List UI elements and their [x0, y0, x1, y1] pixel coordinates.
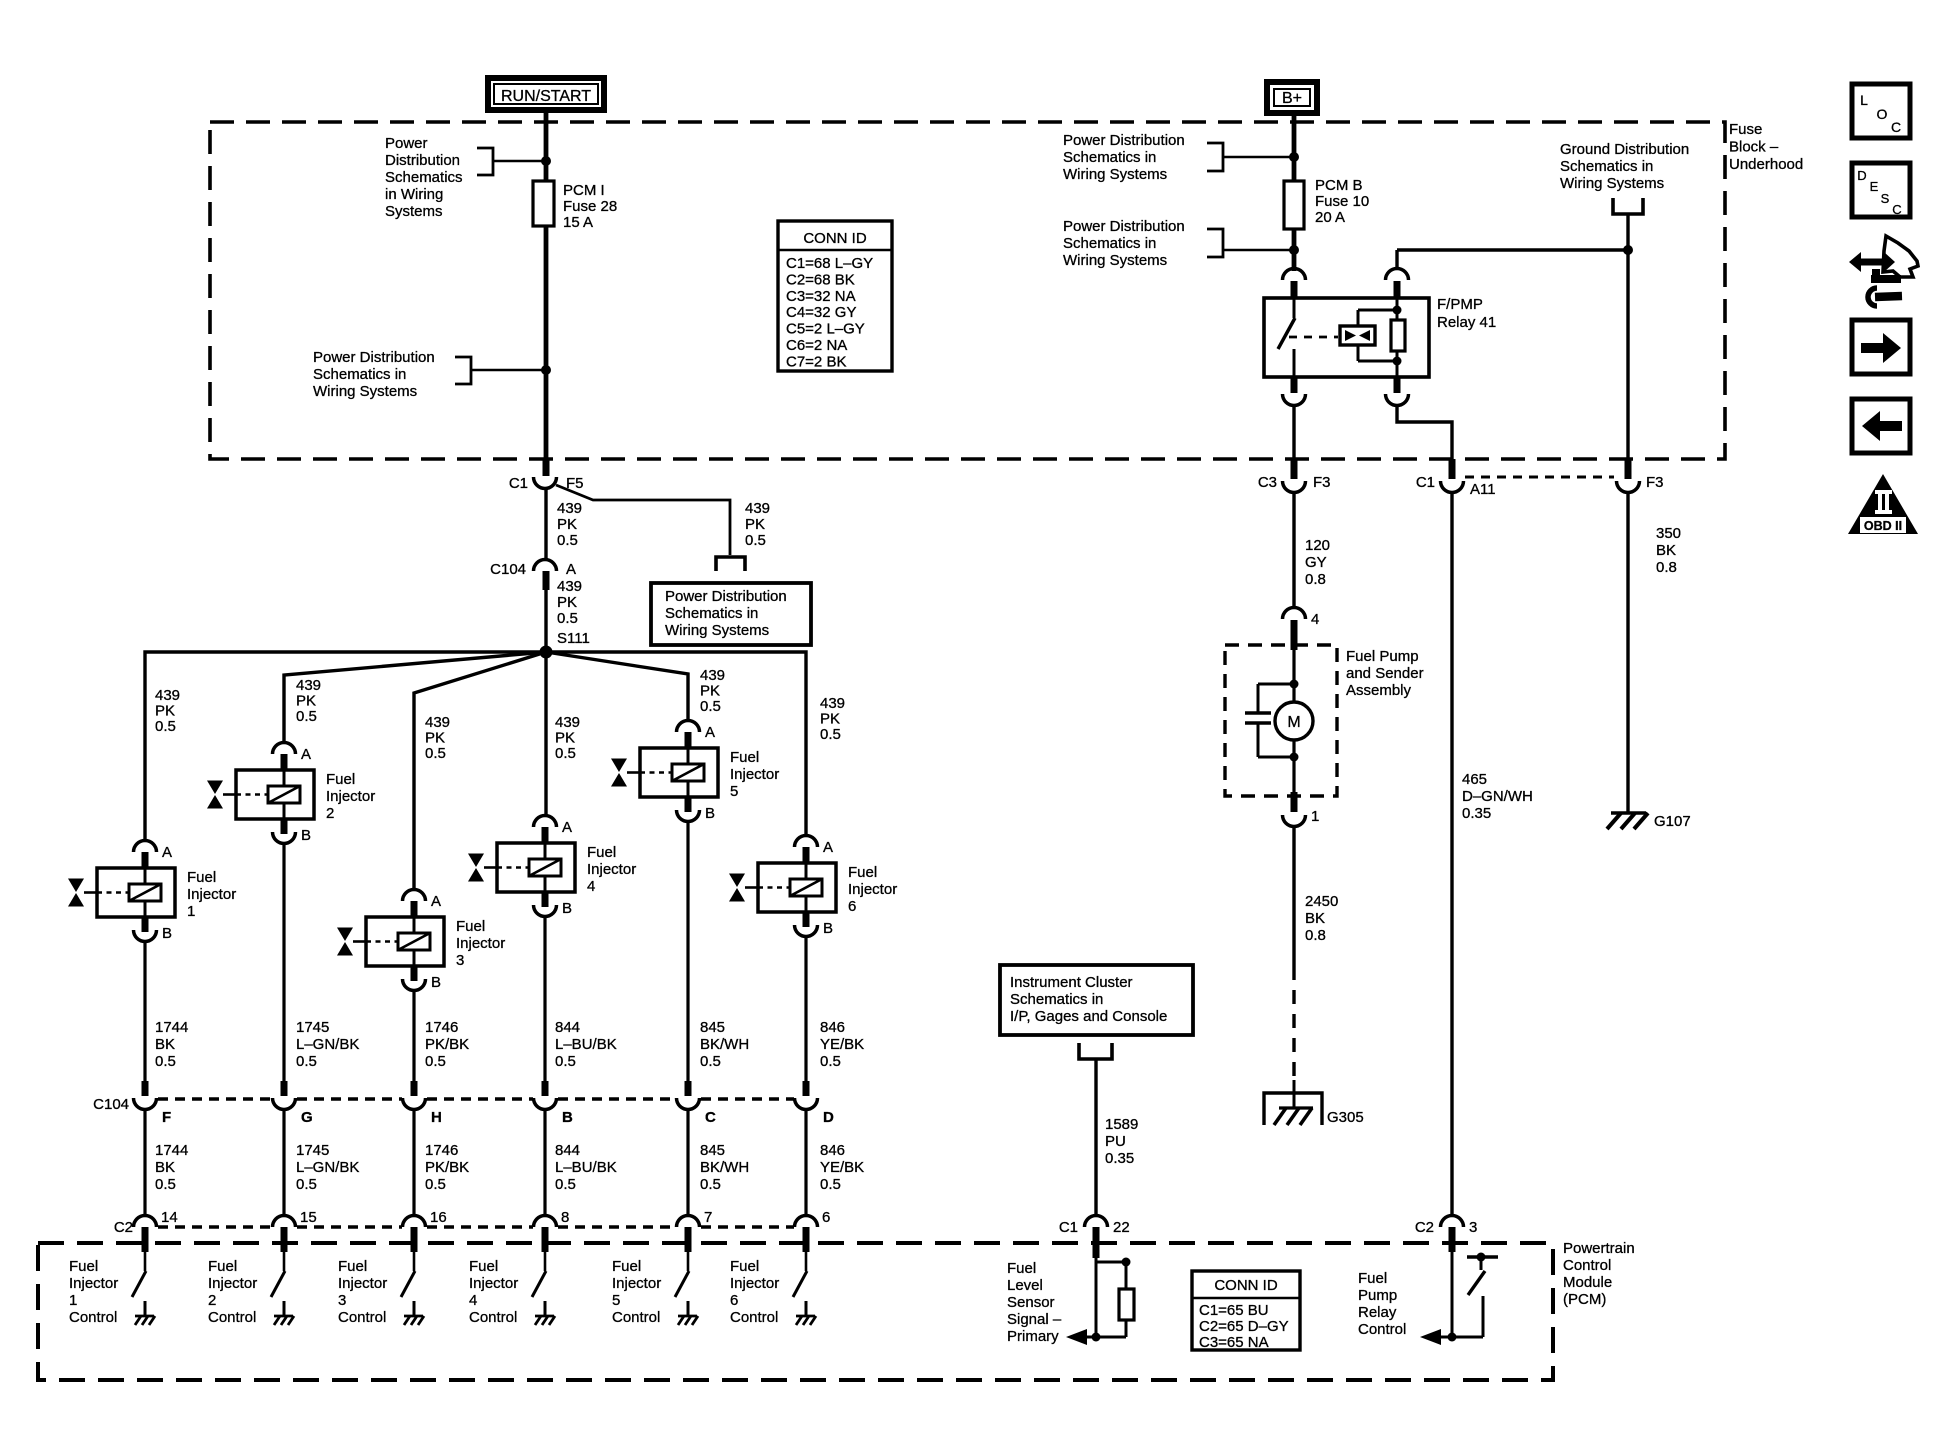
wire 845 injector 5 to C104: [686, 821, 689, 1083]
svg-text:PCM I: PCM I: [563, 182, 605, 199]
svg-text:Control: Control: [612, 1309, 660, 1326]
label 1745 L–GN/BK 0.5 (upper): [296, 1019, 359, 1070]
svg-text:Module: Module: [1563, 1274, 1612, 1291]
svg-text:Fuel: Fuel: [730, 749, 759, 766]
svg-text:B: B: [162, 925, 172, 942]
svg-text:Fuel: Fuel: [612, 1258, 641, 1275]
fuel injector 3: [337, 917, 505, 969]
svg-text:1589: 1589: [1105, 1116, 1138, 1133]
svg-text:6: 6: [822, 1209, 830, 1226]
svg-text:B: B: [823, 920, 833, 937]
wire pump feed inside assembly: [1292, 648, 1295, 701]
svg-text:Fuel Pump: Fuel Pump: [1346, 648, 1419, 665]
wire 844 injector 4 to C104: [543, 916, 546, 1083]
svg-text:Fuel: Fuel: [1007, 1260, 1036, 1277]
connector C3 / F3: [1258, 459, 1331, 493]
svg-text:Injector: Injector: [612, 1275, 661, 1292]
svg-text:F/PMP: F/PMP: [1437, 296, 1483, 313]
icon diagnostic wrench: [1849, 236, 1918, 306]
reference: power distribution schematics in wiring systems (top left): [385, 135, 546, 220]
connector row C104 (dashed): [93, 1096, 794, 1113]
wire 439 PK S111 to injector 3: [414, 652, 546, 890]
splice S111: [540, 646, 553, 659]
wire 465 D-GN/WH C1 A11 to C2: [1450, 492, 1453, 1216]
svg-text:0.5: 0.5: [557, 610, 578, 627]
svg-text:Wiring Systems: Wiring Systems: [665, 622, 769, 639]
label 465 D-GN/WH 0.35: [1462, 771, 1533, 822]
svg-text:L–BU/BK: L–BU/BK: [555, 1159, 617, 1176]
svg-text:C6=2 NA: C6=2 NA: [786, 337, 847, 354]
ground symbol (injector 6 driver): [796, 1301, 816, 1325]
label 350 BK 0.8: [1656, 525, 1681, 576]
svg-text:PK: PK: [155, 703, 175, 720]
svg-text:L: L: [1860, 92, 1868, 108]
label Fuel Injector 4 Control: [469, 1258, 518, 1326]
icon DESC: [1852, 163, 1910, 217]
svg-text:Fuel: Fuel: [187, 869, 216, 886]
junction pump bottom: [1290, 753, 1299, 762]
svg-text:Schematics in: Schematics in: [1063, 149, 1156, 166]
svg-text:BK: BK: [1305, 910, 1325, 927]
svg-text:Schematics in: Schematics in: [1010, 991, 1103, 1008]
label 1746 PK/BK 0.5 (upper): [425, 1019, 469, 1070]
svg-text:1: 1: [1311, 808, 1319, 825]
svg-text:G305: G305: [1327, 1109, 1364, 1126]
fuel injector 6: [729, 863, 897, 915]
svg-text:Power Distribution: Power Distribution: [1063, 132, 1185, 149]
svg-text:1746: 1746: [425, 1142, 458, 1159]
svg-text:20 A: 20 A: [1315, 209, 1345, 226]
svg-text:0.5: 0.5: [155, 1176, 176, 1193]
svg-text:0.35: 0.35: [1462, 805, 1491, 822]
ground G107: [1607, 813, 1691, 830]
svg-text:M: M: [1287, 714, 1300, 731]
connector C104 pin B: [534, 1081, 574, 1126]
svg-text:Powertrain: Powertrain: [1563, 1240, 1635, 1257]
label 439 PK 0.5 (injector 1 feed): [155, 687, 180, 735]
connector C1 / 22: [1059, 1216, 1130, 1259]
svg-text:C3=65 NA: C3=65 NA: [1199, 1334, 1269, 1351]
connector terminal top left of relay: [1283, 269, 1306, 299]
svg-text:6: 6: [848, 898, 856, 915]
connector terminal bottom right of relay: [1386, 377, 1409, 406]
svg-text:Control: Control: [469, 1309, 517, 1326]
svg-text:0.5: 0.5: [557, 532, 578, 549]
svg-text:4: 4: [587, 878, 595, 895]
svg-text:D: D: [1857, 168, 1866, 183]
label Fuse Block Underhood: [1729, 121, 1803, 173]
PCM driver switch fuel injector 3: [401, 1252, 415, 1297]
svg-text:0.5: 0.5: [555, 1053, 576, 1070]
svg-text:C7=2 BK: C7=2 BK: [786, 353, 846, 370]
svg-text:F: F: [162, 1109, 171, 1126]
fuel injector 5: [611, 748, 779, 800]
svg-text:RUN/START: RUN/START: [501, 88, 591, 105]
svg-text:844: 844: [555, 1019, 580, 1036]
relay resistor: [1391, 298, 1405, 377]
svg-text:L–BU/BK: L–BU/BK: [555, 1036, 617, 1053]
svg-text:3: 3: [338, 1292, 346, 1309]
svg-text:Control: Control: [338, 1309, 386, 1326]
svg-text:0.5: 0.5: [425, 1053, 446, 1070]
svg-text:B: B: [562, 900, 572, 917]
fuel injector 2: [207, 770, 375, 822]
svg-text:A: A: [566, 561, 576, 578]
svg-text:0.5: 0.5: [425, 745, 446, 762]
connector pin A of fuel injector 2: [273, 743, 312, 771]
junction relay coil feed: [1623, 245, 1633, 255]
svg-text:Injector: Injector: [326, 788, 375, 805]
svg-text:Fuel: Fuel: [587, 844, 616, 861]
svg-text:Wiring Systems: Wiring Systems: [1063, 166, 1167, 183]
svg-text:439: 439: [700, 667, 725, 684]
svg-text:I/P, Gages and Console: I/P, Gages and Console: [1010, 1008, 1167, 1025]
svg-text:845: 845: [700, 1142, 725, 1159]
connector C2 pin 14: [134, 1209, 178, 1252]
svg-text:CONN ID: CONN ID: [1214, 1277, 1278, 1294]
svg-text:Power Distribution: Power Distribution: [665, 588, 787, 605]
svg-text:0.5: 0.5: [296, 708, 317, 725]
svg-text:4: 4: [1311, 611, 1319, 628]
label 846 YE/BK 0.5 (lower): [820, 1142, 864, 1193]
connector F3 (right): [1617, 459, 1664, 493]
svg-text:7: 7: [704, 1209, 712, 1226]
label 439 PK 0.5 (injector 6 feed): [820, 695, 845, 743]
svg-text:PK/BK: PK/BK: [425, 1036, 469, 1053]
reference: power distribution schematics in wiring systems (right mid): [1063, 218, 1294, 269]
svg-text:PK: PK: [296, 693, 316, 710]
svg-text:Fuel: Fuel: [326, 771, 355, 788]
connector C104 pin F: [134, 1081, 172, 1126]
connector C1 / F5: [509, 459, 584, 492]
svg-text:Injector: Injector: [187, 886, 236, 903]
connector pin B of fuel injector 6: [795, 912, 834, 937]
svg-text:846: 846: [820, 1019, 845, 1036]
svg-text:G107: G107: [1654, 813, 1691, 830]
svg-text:L–GN/BK: L–GN/BK: [296, 1036, 359, 1053]
svg-text:Schematics in: Schematics in: [1063, 235, 1156, 252]
wire 439 PK C1 to C104: [544, 488, 547, 560]
svg-text:PCM B: PCM B: [1315, 177, 1363, 194]
svg-text:C104: C104: [490, 561, 526, 578]
wire 1589 PU: [1094, 1059, 1097, 1216]
fuse PCM I Fuse 28 15 A: [533, 181, 617, 231]
connector C104 / A: [490, 560, 576, 591]
svg-text:C1=68 L–GY: C1=68 L–GY: [786, 255, 873, 272]
fuel pump and sender assembly dashed box: [1225, 645, 1337, 796]
wire 439 PK S111 to injector 6: [546, 652, 806, 836]
svg-text:C2=65 D–GY: C2=65 D–GY: [1199, 1318, 1289, 1335]
wire 1746 C104 to C2: [412, 1110, 415, 1216]
fuse PCM B Fuse 10 20 A: [1284, 177, 1369, 229]
ground symbol (injector 5 driver): [678, 1301, 698, 1325]
svg-text:439: 439: [820, 695, 845, 712]
svg-text:120: 120: [1305, 537, 1330, 554]
svg-text:0.5: 0.5: [296, 1053, 317, 1070]
fuel pump motor M: [1275, 702, 1313, 740]
svg-text:F3: F3: [1313, 474, 1331, 491]
wire fuse PCM B to relay: [1292, 229, 1297, 271]
svg-text:15: 15: [300, 1209, 317, 1226]
svg-text:Fuse 10: Fuse 10: [1315, 193, 1369, 210]
svg-text:1: 1: [187, 903, 195, 920]
svg-text:Fuel: Fuel: [1358, 1270, 1387, 1287]
junction pump top: [1290, 680, 1299, 689]
ground symbol (injector 3 driver): [404, 1301, 424, 1325]
svg-text:465: 465: [1462, 771, 1487, 788]
svg-text:Power Distribution: Power Distribution: [1063, 218, 1185, 235]
connector C2 / 3: [1415, 1216, 1478, 1253]
svg-text:C1: C1: [509, 475, 528, 492]
PCM driver switch fuel injector 5: [675, 1252, 689, 1297]
PCM driver switch fuel injector 6: [793, 1252, 807, 1297]
wire 2450 BK: [1292, 826, 1295, 966]
svg-text:A: A: [562, 819, 572, 836]
wire 439 PK S111 to injector 2: [284, 652, 546, 743]
label 1745 L–GN/BK 0.5 (lower): [296, 1142, 359, 1193]
svg-text:E: E: [1870, 179, 1879, 194]
svg-text:0.5: 0.5: [700, 698, 721, 715]
svg-text:PK: PK: [700, 683, 720, 700]
label 439 PK 0.5 (branch): [745, 500, 770, 549]
label 1744 BK 0.5 (lower): [155, 1142, 188, 1193]
connector C1 / A11: [1416, 459, 1496, 498]
svg-text:Schematics: Schematics: [385, 169, 463, 186]
svg-text:A: A: [431, 893, 441, 910]
junction top right: [1289, 152, 1299, 162]
svg-text:YE/BK: YE/BK: [820, 1159, 864, 1176]
svg-text:BK/WH: BK/WH: [700, 1036, 749, 1053]
wire 846 C104 to C2: [804, 1110, 807, 1216]
wire 439 PK S111 to injector 4: [544, 652, 547, 816]
label 1744 BK 0.5 (upper): [155, 1019, 188, 1070]
svg-text:Power Distribution: Power Distribution: [313, 349, 435, 366]
wire 1745 injector 2 to C104: [282, 843, 285, 1083]
svg-text:Injector: Injector: [848, 881, 897, 898]
svg-text:16: 16: [430, 1209, 447, 1226]
wire 1745 C104 to C2: [282, 1110, 285, 1216]
label 439 PK 0.5 (injector 3 feed): [425, 714, 450, 762]
svg-text:0.5: 0.5: [155, 718, 176, 735]
connector pin B of fuel injector 1: [134, 917, 173, 942]
svg-text:YE/BK: YE/BK: [820, 1036, 864, 1053]
label 439 PK 0.5 (injector 2 feed): [296, 677, 321, 725]
svg-text:0.8: 0.8: [1305, 927, 1326, 944]
fuse block underhood dashed box: [210, 122, 1725, 459]
svg-text:A11: A11: [1470, 481, 1496, 498]
svg-text:Wiring Systems: Wiring Systems: [313, 383, 417, 400]
svg-text:439: 439: [557, 578, 582, 595]
wire fuse PCM I to connector C1: [544, 226, 549, 462]
svg-text:Fuel: Fuel: [456, 918, 485, 935]
svg-text:Injector: Injector: [456, 935, 505, 952]
connector pin A of fuel injector 5: [677, 721, 716, 749]
label F/PMP Relay 41: [1437, 296, 1496, 331]
svg-text:0.5: 0.5: [425, 1176, 446, 1193]
wire 845 C104 to C2: [686, 1110, 689, 1216]
reference: power distribution schematics in wiring systems (left mid): [313, 349, 546, 400]
svg-text:3: 3: [1469, 1219, 1477, 1236]
svg-text:BK: BK: [155, 1159, 175, 1176]
svg-text:Wiring Systems: Wiring Systems: [1063, 252, 1167, 269]
label Fuel Pump and Sender Assembly: [1346, 648, 1424, 699]
svg-text:0.5: 0.5: [296, 1176, 317, 1193]
relay dashed actuation link: [1289, 336, 1338, 339]
wire 439 PK branch to reference box: [556, 485, 730, 555]
PCM dashed box: [38, 1243, 1553, 1380]
fuel injector 4: [468, 843, 636, 895]
svg-text:C3=32 NA: C3=32 NA: [786, 288, 856, 305]
icon arrow right: [1852, 320, 1910, 374]
svg-text:14: 14: [161, 1209, 178, 1226]
connector pin A of fuel injector 6: [795, 836, 834, 864]
svg-text:4: 4: [469, 1292, 477, 1309]
svg-text:S111: S111: [557, 630, 590, 647]
svg-text:0.5: 0.5: [700, 1053, 721, 1070]
svg-text:2: 2: [208, 1292, 216, 1309]
svg-text:0.35: 0.35: [1105, 1150, 1134, 1167]
label 439 PK 0.5 (C1 to C104): [557, 500, 582, 549]
svg-text:and Sender: and Sender: [1346, 665, 1424, 682]
svg-text:0.5: 0.5: [700, 1176, 721, 1193]
svg-text:Relay: Relay: [1358, 1304, 1397, 1321]
svg-text:Injector: Injector: [208, 1275, 257, 1292]
connector C2 pin 8: [534, 1209, 570, 1252]
svg-text:C: C: [1891, 119, 1901, 135]
svg-text:Distribution: Distribution: [385, 152, 460, 169]
icon arrow left: [1852, 399, 1910, 453]
svg-text:350: 350: [1656, 525, 1681, 542]
svg-text:0.5: 0.5: [820, 1176, 841, 1193]
svg-text:PK/BK: PK/BK: [425, 1159, 469, 1176]
svg-text:3: 3: [456, 952, 464, 969]
svg-text:Injector: Injector: [587, 861, 636, 878]
svg-text:846: 846: [820, 1142, 845, 1159]
svg-text:in Wiring: in Wiring: [385, 186, 443, 203]
svg-text:Control: Control: [208, 1309, 256, 1326]
label 845 BK/WH 0.5 (lower): [700, 1142, 749, 1193]
svg-text:22: 22: [1113, 1219, 1130, 1236]
wire relay to C3: [1292, 405, 1295, 462]
svg-text:F3: F3: [1646, 474, 1664, 491]
svg-text:Injector: Injector: [469, 1275, 518, 1292]
svg-text:1745: 1745: [296, 1019, 329, 1036]
connector terminal top right of relay: [1386, 269, 1409, 299]
svg-text:A: A: [162, 844, 172, 861]
label 844 L–BU/BK 0.5 (upper): [555, 1019, 617, 1070]
svg-text:Assembly: Assembly: [1346, 682, 1412, 699]
svg-text:B: B: [301, 827, 311, 844]
svg-text:Fuel: Fuel: [469, 1258, 498, 1275]
junction mid right: [1289, 245, 1299, 255]
connector pin B of fuel injector 2: [273, 819, 312, 844]
svg-text:C1=65 BU: C1=65 BU: [1199, 1302, 1269, 1319]
connector C104 pin D: [795, 1081, 835, 1126]
svg-text:Systems: Systems: [385, 203, 443, 220]
reference: power distribution schematics in wiring systems (top right): [1063, 132, 1294, 183]
connector row C2 (dashed): [114, 1219, 794, 1236]
relay F/PMP Relay 41: [1264, 298, 1429, 377]
svg-text:0.5: 0.5: [820, 726, 841, 743]
svg-text:5: 5: [730, 783, 738, 800]
svg-text:PK: PK: [425, 730, 445, 747]
pigtail to reference box: [716, 557, 745, 571]
junction coil bottom: [1393, 357, 1402, 366]
label 844 L–BU/BK 0.5 (lower): [555, 1142, 617, 1193]
svg-text:6: 6: [730, 1292, 738, 1309]
svg-text:PU: PU: [1105, 1133, 1126, 1150]
wire pump to pin 1: [1292, 739, 1295, 792]
reference box Power Distribution Schematics in Wiring Systems: [651, 583, 811, 645]
svg-text:A: A: [823, 839, 833, 856]
svg-text:439: 439: [745, 500, 770, 517]
svg-text:0.5: 0.5: [155, 1053, 176, 1070]
svg-text:Control: Control: [1358, 1321, 1406, 1338]
CONN ID table (top): [778, 221, 892, 371]
wire B+ to fuse PCM B: [1292, 113, 1297, 183]
svg-text:2: 2: [326, 805, 334, 822]
svg-text:1744: 1744: [155, 1142, 188, 1159]
svg-text:Injector: Injector: [338, 1275, 387, 1292]
svg-text:Fuel: Fuel: [69, 1258, 98, 1275]
svg-text:1: 1: [69, 1292, 77, 1309]
svg-text:0.5: 0.5: [555, 1176, 576, 1193]
svg-text:PK: PK: [555, 730, 575, 747]
svg-text:C: C: [1892, 202, 1901, 217]
svg-text:BK/WH: BK/WH: [700, 1159, 749, 1176]
svg-text:PK: PK: [557, 516, 577, 533]
reference: ground distribution schematics in wiring systems: [1560, 141, 1689, 214]
connector C104 pin H: [403, 1081, 442, 1126]
label 1589 PU 0.35: [1105, 1116, 1138, 1167]
ground G305: [1264, 1080, 1364, 1126]
svg-text:C1: C1: [1416, 474, 1435, 491]
connector terminal bottom left of relay: [1283, 377, 1306, 406]
svg-text:Injector: Injector: [730, 1275, 779, 1292]
svg-text:Block –: Block –: [1729, 139, 1779, 156]
connector pin B of fuel injector 3: [403, 966, 442, 991]
svg-text:Ground Distribution: Ground Distribution: [1560, 141, 1689, 158]
power node B+: [1267, 82, 1317, 113]
svg-text:2450: 2450: [1305, 893, 1338, 910]
svg-text:Schematics in: Schematics in: [1560, 158, 1653, 175]
svg-text:B: B: [705, 805, 715, 822]
label Fuel Pump Relay Control: [1358, 1270, 1406, 1338]
svg-text:PK: PK: [820, 711, 840, 728]
wire 844 C104 to C2: [543, 1110, 546, 1216]
svg-text:845: 845: [700, 1019, 725, 1036]
PCM fuel level sensor input network: [1066, 1258, 1134, 1346]
svg-text:D: D: [823, 1109, 834, 1126]
label Fuel Level Sensor Signal Primary: [1007, 1260, 1062, 1345]
svg-text:Injector: Injector: [69, 1275, 118, 1292]
wire coil feed to relay: [1397, 250, 1628, 270]
svg-text:Primary: Primary: [1007, 1328, 1059, 1345]
connector row dash C1-F3: [1465, 476, 1614, 479]
svg-text:0.8: 0.8: [1305, 571, 1326, 588]
svg-text:Fuel: Fuel: [848, 864, 877, 881]
svg-text:439: 439: [155, 687, 180, 704]
svg-text:Fuel: Fuel: [338, 1258, 367, 1275]
svg-text:0.5: 0.5: [555, 745, 576, 762]
relay coil: [1340, 310, 1398, 361]
svg-text:H: H: [431, 1109, 442, 1126]
connector C2 pin 7: [677, 1209, 713, 1252]
label 846 YE/BK 0.5 (upper): [820, 1019, 864, 1070]
svg-text:439: 439: [425, 714, 450, 731]
label 2450 BK 0.8: [1305, 893, 1338, 944]
svg-text:Control: Control: [1563, 1257, 1611, 1274]
